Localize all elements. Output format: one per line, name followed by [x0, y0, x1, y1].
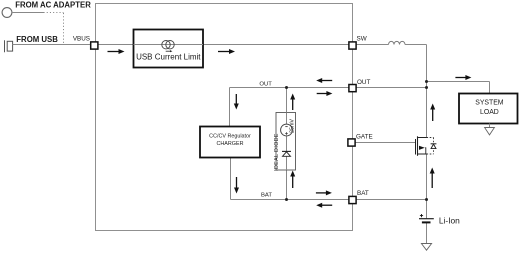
svg-text:IDEAL DIODE: IDEAL DIODE: [274, 133, 280, 171]
svg-text:Li-Ion: Li-Ion: [439, 215, 460, 225]
svg-text:OUT: OUT: [259, 81, 272, 87]
svg-text:SW: SW: [357, 35, 367, 42]
svg-text:SYSTEM: SYSTEM: [475, 100, 504, 107]
svg-text:BAT: BAT: [261, 193, 272, 199]
svg-text:25mV: 25mV: [289, 119, 295, 133]
svg-text:OUT: OUT: [357, 79, 370, 86]
svg-text:LOAD: LOAD: [480, 109, 499, 116]
svg-text:USB Current Limit: USB Current Limit: [136, 52, 201, 61]
svg-text:CC/CV Regulator: CC/CV Regulator: [209, 134, 251, 140]
svg-text:BAT: BAT: [357, 190, 369, 197]
svg-text:FROM USB: FROM USB: [16, 35, 58, 44]
svg-text:VBUS: VBUS: [73, 36, 90, 43]
svg-text:FROM AC ADAPTER: FROM AC ADAPTER: [15, 1, 91, 10]
svg-text:GATE: GATE: [356, 133, 373, 140]
svg-text:CHARGER: CHARGER: [217, 141, 244, 147]
